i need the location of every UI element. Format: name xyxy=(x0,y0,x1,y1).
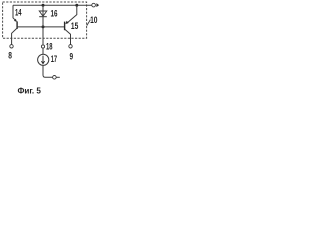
terminal circle bottom xyxy=(53,76,57,80)
node diode top xyxy=(42,4,45,7)
emitter wire Q14 xyxy=(13,5,16,21)
svg-text:17: 17 xyxy=(51,54,57,65)
terminal circle 8 xyxy=(10,45,13,48)
wire top rail xyxy=(13,4,92,6)
svg-text:10: 10 xyxy=(90,15,97,26)
node base rail junction xyxy=(42,25,45,28)
base bar Q14 xyxy=(16,21,18,29)
wire stub after terminal xyxy=(56,76,60,78)
svg-text:16: 16 xyxy=(51,9,58,20)
base bar Q15 xyxy=(64,22,66,31)
emitter wire Q15 xyxy=(67,5,77,23)
svg-text:14: 14 xyxy=(15,8,22,19)
leader line for 10 xyxy=(87,20,91,26)
current source I17 xyxy=(38,54,49,65)
transistor Q14 xyxy=(12,5,18,45)
svg-text:18: 18 xyxy=(46,41,53,52)
collector wire Q14 xyxy=(12,28,17,44)
wire 18 to source xyxy=(42,48,44,54)
node emitter Q15 top xyxy=(75,4,78,7)
plus polarity mark xyxy=(96,3,99,7)
svg-text:Фиг. 5: Фиг. 5 xyxy=(17,85,41,95)
terminal circle 9 xyxy=(69,45,72,48)
collector wire Q15 xyxy=(65,29,71,44)
emitter arrow Q15 xyxy=(65,21,68,24)
dashed enclosure box 10 xyxy=(3,2,87,38)
emitter arrow Q14 xyxy=(14,19,17,22)
svg-text:8: 8 xyxy=(8,50,12,61)
transistor Q15 xyxy=(65,5,77,44)
terminal circle 18 xyxy=(41,45,44,48)
wire diode branch vertical xyxy=(42,5,44,45)
diode D16 xyxy=(39,11,47,17)
svg-text:9: 9 xyxy=(70,51,74,62)
wire base rail xyxy=(17,26,64,28)
terminal output circle xyxy=(92,3,96,7)
svg-text:15: 15 xyxy=(71,21,79,32)
wire bottom branch xyxy=(43,66,53,78)
